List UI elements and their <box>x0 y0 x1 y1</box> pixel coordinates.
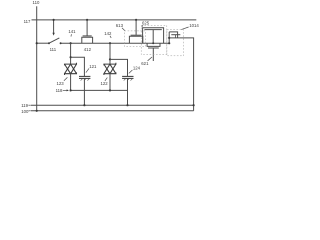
wire: tee to capacitor 124 <box>110 59 128 76</box>
capacitor 124 hatches <box>124 79 126 81</box>
svg-text:122: 122 <box>101 81 109 86</box>
tvs1 top bar with zener ticks <box>65 63 77 66</box>
junction at 1014 riser <box>168 42 170 44</box>
transistor 412 gate bar <box>83 35 92 37</box>
wire: riser to transistor 1014 <box>168 32 170 43</box>
capacitor 121 plates <box>79 75 90 77</box>
wire: left vertical line (input 110) <box>36 6 38 111</box>
transistor 1014 gate bar <box>171 34 180 36</box>
junction at 142 <box>109 42 111 44</box>
switch 111 <box>48 42 50 44</box>
leader for 621 <box>148 57 152 61</box>
transistor 621 channel <box>147 43 160 46</box>
wire: capacitor 121 bottom lead to rail <box>83 78 85 105</box>
leader for 121 <box>86 68 89 72</box>
junction on top rail at 412 gate <box>86 19 88 21</box>
junction on top rail at 613 gate <box>135 19 137 21</box>
svg-text:124: 124 <box>133 65 141 70</box>
wire: node 118 horizontal <box>71 89 128 91</box>
svg-text:141: 141 <box>68 29 76 34</box>
svg-text:625: 625 <box>142 21 150 26</box>
tvs2 top bar with zener ticks <box>104 63 116 66</box>
svg-text:119: 119 <box>21 103 28 108</box>
transistor 613 gate lead <box>135 20 137 35</box>
junction of branch with left vertical <box>36 42 38 44</box>
leader for 625 <box>142 25 143 27</box>
svg-text:100: 100 <box>21 109 29 114</box>
svg-text:111: 111 <box>50 47 57 52</box>
junction rail2/left vertical <box>36 110 38 112</box>
svg-text:621: 621 <box>141 61 149 66</box>
transistor 613 gate bar <box>131 34 142 36</box>
junction 118/tvs2 <box>109 89 111 91</box>
leader for 122 <box>105 78 107 81</box>
wire: stub from top rail down to switch with arrowhead <box>53 20 55 33</box>
transistor 613 channel <box>129 36 142 43</box>
junction rail1/cap121 <box>83 104 85 106</box>
wire: tee to capacitor 121 <box>71 57 85 76</box>
transistor 625 gate lead <box>152 30 154 44</box>
tvs1 lower triangle <box>65 64 77 74</box>
svg-text:117: 117 <box>24 19 31 24</box>
wire: rail 119 <box>31 104 194 106</box>
wire: branch horizontal at y=43.2 <box>37 42 49 44</box>
junction at node 118 drop (branch) <box>70 42 72 44</box>
leader for 124 <box>129 70 133 73</box>
dashed box around 1014 <box>167 30 184 56</box>
wire: top rail <box>32 19 197 21</box>
transistor 1014 channel <box>169 32 177 38</box>
svg-text:118: 118 <box>56 88 63 93</box>
wire: tvs2 bottom lead <box>109 74 111 91</box>
junction on 1014 riser <box>168 37 170 39</box>
transistor 1014 gate lead <box>175 35 177 38</box>
svg-text:613: 613 <box>116 23 124 28</box>
leader for 142 <box>110 36 111 38</box>
junction 118/tvs1 <box>70 89 72 91</box>
transistor 625 channel <box>143 28 164 44</box>
TVS diode pair 122 (group 2) <box>104 63 116 75</box>
wire: tvs1 bottom lead <box>70 74 72 91</box>
wire: 1014 source to right vertical <box>169 38 193 111</box>
leader for 123 <box>64 77 68 80</box>
junction on top rail at stub <box>53 19 55 21</box>
wire: capacitor 124 bottom lead to rail <box>127 78 129 105</box>
svg-text:121: 121 <box>89 64 97 69</box>
tvs1 bottom bar with zener ticks <box>65 72 77 75</box>
junction rail1/right vertical <box>193 104 195 106</box>
transistor 621 gate lead <box>152 48 154 61</box>
leader for 141 <box>70 34 72 36</box>
TVS diode pair 121/123 (group 1) <box>65 63 77 75</box>
svg-text:1014: 1014 <box>189 23 199 28</box>
transistor 625 gate bar <box>144 29 161 31</box>
wire: rail 100 <box>31 110 194 112</box>
capacitor 124 plates <box>122 75 133 77</box>
leader for 613 <box>122 28 125 31</box>
transistor 412 gate lead <box>86 20 88 36</box>
junction rail1/cap124 <box>126 104 128 106</box>
capacitor 121 hatches <box>81 79 83 81</box>
junction tee group2 <box>109 58 111 60</box>
svg-text:123: 123 <box>57 81 65 86</box>
dashed box around 613 <box>124 31 145 47</box>
dashed box around 625/621 <box>141 25 167 54</box>
transistor 621 gate bar <box>148 47 159 49</box>
leader arrow for 118 <box>63 89 68 91</box>
wire: vertical to TVS group 2 <box>109 43 111 64</box>
tvs2 bottom bar with zener ticks <box>104 72 116 75</box>
leader for 1014 <box>181 27 188 30</box>
transistor 412 channel <box>82 37 93 43</box>
tvs2 upper triangle <box>104 64 116 74</box>
tvs1 upper triangle <box>65 64 77 74</box>
svg-text:142: 142 <box>104 31 112 36</box>
tvs2 lower triangle <box>104 64 116 74</box>
svg-text:412: 412 <box>84 47 92 52</box>
svg-text:110: 110 <box>33 0 40 5</box>
junction tee group1 <box>70 56 72 58</box>
wire: vertical to TVS group 1 <box>70 43 72 64</box>
